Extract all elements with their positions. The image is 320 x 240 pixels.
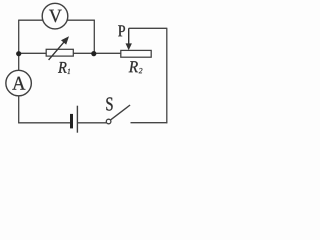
label R2 subscript 2 bbox=[139, 68, 143, 73]
wire left rail upper bbox=[18, 20, 20, 54]
wire switch to corner bbox=[131, 122, 168, 124]
switch S pivot bbox=[106, 119, 111, 124]
wire left rail to ammeter bbox=[18, 53, 20, 70]
wire ammeter to bottom bbox=[18, 96, 20, 123]
wire right rail bbox=[166, 28, 168, 123]
wire R1 row left bbox=[19, 52, 47, 54]
voltmeter U1 circle bbox=[42, 3, 68, 29]
label R1 letter R bbox=[58, 62, 67, 73]
voltmeter label V bbox=[49, 10, 62, 23]
wire top-right horizontal bbox=[67, 19, 95, 21]
label R1 subscript 1 bbox=[67, 69, 70, 74]
wire battery to switch bbox=[78, 122, 106, 124]
label R2 letter R bbox=[129, 61, 138, 72]
slider P arrow shaft bbox=[128, 28, 130, 44]
slider P arrowhead bbox=[126, 43, 132, 50]
switch S lever bbox=[111, 105, 130, 120]
battery positive plate (long thin) bbox=[76, 106, 78, 133]
node junction right of R1 bbox=[91, 51, 96, 56]
battery negative plate (short thick) bbox=[70, 114, 73, 128]
wire bottom left segment bbox=[18, 122, 70, 124]
rheostat R1 arrowhead bbox=[61, 36, 69, 44]
resistor R2 body bbox=[121, 50, 151, 57]
wire junction to R2 bbox=[94, 52, 121, 54]
rheostat R1 arrow shaft bbox=[49, 42, 65, 60]
wire R1 to junction bbox=[73, 52, 94, 54]
label P bbox=[118, 25, 125, 36]
wire voltmeter drop bbox=[93, 20, 95, 53]
wire slider arm horizontal bbox=[129, 27, 168, 29]
label S bbox=[106, 97, 112, 110]
node junction left rail bbox=[16, 51, 21, 56]
ammeter label A bbox=[12, 77, 25, 90]
ammeter A1 circle bbox=[6, 70, 32, 96]
rheostat R1 body bbox=[46, 49, 73, 56]
wire top-left horizontal bbox=[19, 19, 43, 21]
